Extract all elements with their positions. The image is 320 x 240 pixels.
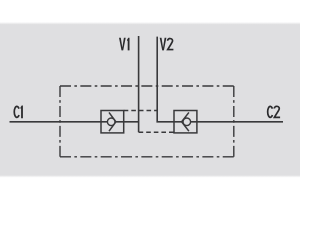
wire: V1 vertical down to pilot corner xyxy=(138,36,140,132)
check valve V2 seat xyxy=(182,112,189,131)
check valve V2 ball xyxy=(183,118,191,126)
boundary left edge xyxy=(59,86,61,157)
wire: main line C1 to V1 junction xyxy=(10,121,139,123)
port label V2 xyxy=(160,38,167,51)
wire: main line V2 corner to C2 xyxy=(157,37,283,122)
gray drawing background band xyxy=(0,22,300,178)
boundary top edge xyxy=(60,85,234,87)
pilot line to left valve (dashed, from V2 line) xyxy=(124,110,158,112)
check valve V2 box xyxy=(174,111,197,133)
valve body boundary (dash-dot enclosure) xyxy=(60,86,234,157)
check valve V1 ball xyxy=(107,118,115,126)
port label C1 xyxy=(14,106,19,117)
port label V1 xyxy=(119,38,126,51)
pilot line to right valve (dashed, from V1 line) xyxy=(139,131,174,133)
check valve V1 box xyxy=(101,111,124,133)
port label C2 xyxy=(268,106,280,117)
boundary bottom edge xyxy=(60,156,234,158)
check valve V1 seat xyxy=(109,112,116,131)
boundary right edge xyxy=(233,86,235,157)
